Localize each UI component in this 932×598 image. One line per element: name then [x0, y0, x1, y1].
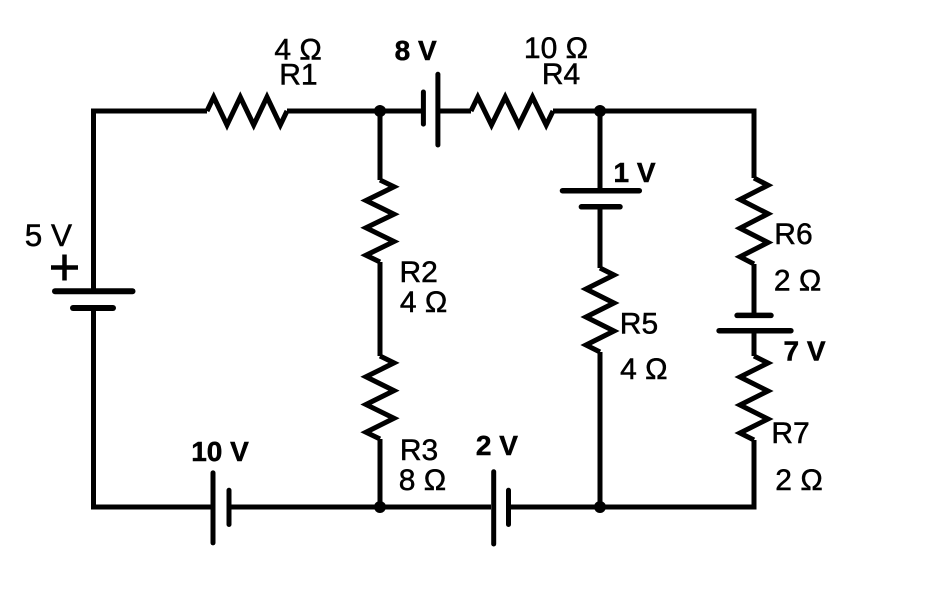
wire R4 to node B [553, 109, 600, 114]
svg-text:2 Ω: 2 Ω [775, 464, 822, 497]
svg-text:10 V: 10 V [191, 436, 249, 467]
wire R5 to node E [598, 352, 603, 507]
resistor R7 zigzag [740, 356, 768, 440]
node D junction dot [374, 501, 386, 513]
svg-text:2 Ω: 2 Ω [774, 265, 821, 298]
battery V2 8 V short plate [421, 92, 426, 124]
wire node A down to R2 [378, 111, 383, 180]
battery V3 10 V short plate [227, 490, 232, 524]
node B junction dot [594, 105, 606, 117]
node A junction dot [374, 105, 386, 117]
battery V5 7 V short plate [737, 313, 771, 319]
wire R1 to 8V battery (through node A) [287, 109, 421, 114]
resistor R3 zigzag [366, 356, 394, 439]
wire top-left: left rail upper + top wire to R1 [94, 111, 208, 289]
svg-text:R4: R4 [542, 58, 580, 91]
svg-text:1 V: 1 V [614, 157, 656, 188]
svg-text:4 Ω: 4 Ω [620, 353, 667, 386]
svg-text:4 Ω: 4 Ω [400, 286, 447, 319]
svg-text:8 V: 8 V [395, 35, 437, 66]
battery V3 10 V long plate [211, 473, 216, 543]
wire R2 to R3 [378, 262, 383, 356]
battery V6 1 V short plate [581, 204, 620, 210]
wire 2V battery to 10V battery (through node D) [232, 505, 492, 510]
wire top-right: node B to right rail down to R6 [600, 111, 754, 178]
svg-text:R2: R2 [400, 256, 438, 289]
resistor R4 zigzag [471, 97, 553, 125]
resistor R5 zigzag [586, 268, 614, 352]
wire 7V battery to R7 [752, 333, 757, 356]
plus sign of 5V battery [51, 255, 78, 281]
battery V4 2 V long plate [491, 472, 496, 544]
battery V5 7 V long plate [719, 328, 791, 334]
battery V4 2 V short plate [506, 490, 511, 524]
svg-text:8 Ω: 8 Ω [399, 464, 446, 497]
svg-text:7 V: 7 V [784, 335, 826, 366]
svg-text:R5: R5 [620, 308, 658, 341]
node E junction dot [594, 501, 606, 513]
resistor R2 zigzag [366, 180, 394, 262]
svg-text:5 V: 5 V [25, 217, 72, 253]
svg-text:R1: R1 [279, 59, 317, 92]
wire R6 to 7V battery [752, 264, 757, 313]
battery V1 5 V long plate [55, 288, 133, 294]
resistor R1 zigzag [207, 97, 287, 125]
svg-text:R7: R7 [771, 417, 809, 450]
svg-text:R6: R6 [774, 218, 812, 251]
wire 8V battery to R4 [440, 109, 471, 114]
svg-text:R3: R3 [400, 434, 438, 467]
wire node B down to 1V battery [598, 111, 603, 189]
resistor R6 zigzag [740, 178, 768, 264]
battery V1 5 V short plate [73, 305, 113, 311]
battery V6 1 V long plate [563, 188, 640, 194]
wire R7 to bottom-right corner to 2V battery [511, 440, 754, 507]
wire left rail lower + bottom wire to 10V battery [94, 306, 212, 507]
svg-text:2 V: 2 V [476, 430, 518, 461]
battery V2 8 V long plate [435, 74, 440, 145]
wire 1V battery to R5 [598, 209, 603, 268]
wire R3 to node D [378, 439, 383, 507]
